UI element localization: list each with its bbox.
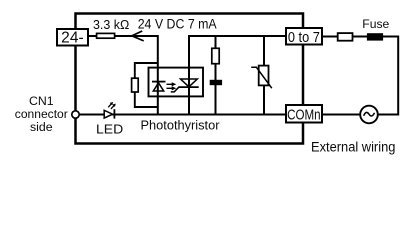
terminal screw	[338, 33, 353, 41]
svg-text:connector: connector	[15, 107, 68, 121]
photothyristor gate lead	[171, 87, 179, 92]
bottom common wire	[79, 114, 286, 116]
svg-text:COMn: COMn	[287, 107, 321, 123]
terminal box 0 to 7	[286, 28, 322, 45]
resistor R1 3.3 kOhm	[97, 33, 115, 38]
varistor branch upper lead	[263, 36, 265, 66]
varistor body	[259, 66, 269, 86]
svg-text:LED: LED	[96, 122, 123, 136]
indicator LED cathode bar	[113, 109, 115, 118]
wire 0 to 7 branch (top right rail)	[189, 36, 286, 115]
svg-text:External wiring: External wiring	[311, 139, 395, 154]
varistor lower lead	[263, 85, 265, 114]
module boundary outline	[76, 14, 304, 144]
terminal box 24-	[57, 29, 88, 46]
photothyristor cathode bar	[178, 86, 198, 88]
AC source	[360, 106, 378, 124]
svg-text:Photothyristor: Photothyristor	[141, 118, 221, 133]
light emission arrows	[167, 82, 177, 90]
svg-text:CN1: CN1	[29, 94, 54, 108]
svg-text:0 to 7: 0 to 7	[288, 30, 320, 46]
resistor R3	[212, 48, 219, 63]
capacitor branch wire	[215, 64, 217, 115]
capacitor C1 plate	[210, 80, 222, 85]
indicator LED triangle	[104, 110, 112, 118]
svg-text:24 V DC 7 mA: 24 V DC 7 mA	[138, 17, 217, 32]
terminal box COMn	[286, 105, 322, 123]
svg-text:24-: 24-	[61, 30, 84, 47]
indicator LED light arrows	[108, 102, 116, 109]
coupler LED cathode bar	[152, 81, 166, 83]
external wire from 0 to 7	[322, 36, 338, 38]
capacitor branch upper lead	[215, 36, 217, 49]
fuse F1	[367, 33, 383, 40]
wire AC source to COMn	[322, 114, 360, 116]
svg-text:3.3 kΩ: 3.3 kΩ	[93, 18, 129, 32]
photocoupler box U1	[149, 68, 204, 97]
svg-text:side: side	[30, 120, 53, 134]
photothyristor triangle	[181, 79, 198, 87]
CN1 terminal circle	[72, 111, 79, 118]
wire to fuse	[353, 36, 368, 38]
current direction arrow	[132, 31, 144, 41]
varistor diagonal stroke	[251, 67, 272, 88]
svg-text:Fuse: Fuse	[362, 17, 389, 31]
parallel resistor R2 loop	[135, 63, 158, 78]
wire from 24- to resistor R1	[88, 35, 97, 37]
external right wire	[378, 37, 398, 115]
wire resistor to LED branch corner	[115, 36, 158, 115]
coupler LED triangle	[153, 83, 163, 91]
